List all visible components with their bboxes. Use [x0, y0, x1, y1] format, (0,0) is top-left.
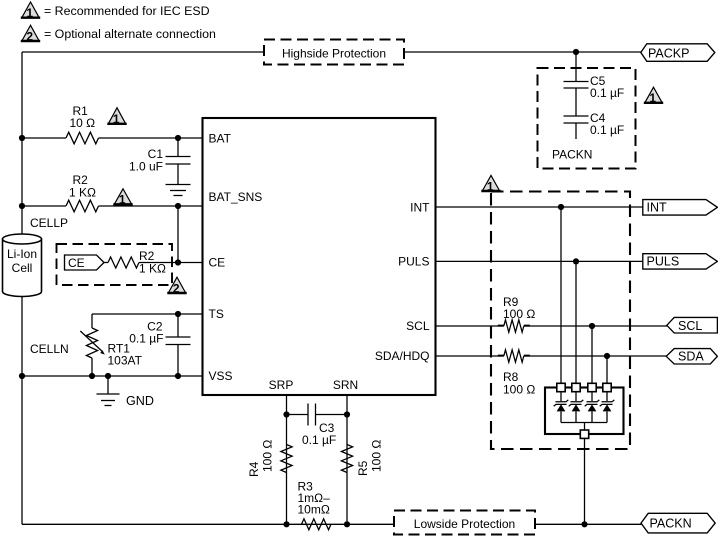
wire PACKP to C5	[575, 52, 577, 82]
TVS common bus	[561, 422, 607, 424]
junction dot SRP-bottom	[283, 521, 289, 527]
svg-text:1: 1	[113, 112, 120, 126]
svg-text:SCL: SCL	[678, 319, 702, 333]
junction dot BAT-C1	[175, 135, 181, 141]
svg-text:CELLN: CELLN	[30, 342, 69, 356]
resistor R9	[504, 320, 524, 332]
connector tag INT	[643, 200, 718, 216]
IC U1 battery gauge body	[203, 118, 436, 395]
wire left rail upper	[21, 52, 23, 235]
svg-text:PACKN: PACKN	[552, 148, 592, 162]
capacitor C1	[166, 138, 191, 185]
svg-text:1.0 uF: 1.0 uF	[129, 160, 163, 174]
svg-text:VSS: VSS	[209, 369, 233, 383]
resistor R3	[302, 519, 332, 530]
svg-text:CE: CE	[68, 256, 85, 270]
svg-text:INT: INT	[647, 201, 668, 215]
connector tag SCL	[667, 317, 718, 333]
ground GND	[97, 376, 120, 406]
wire INT	[436, 206, 643, 208]
svg-text:10mΩ: 10mΩ	[298, 503, 330, 517]
svg-text:GND: GND	[126, 394, 154, 408]
resistor R2	[66, 200, 99, 212]
svg-text:10 Ω: 10 Ω	[70, 116, 96, 130]
junction dot SRP-C3	[283, 411, 289, 417]
wire SDA	[436, 355, 667, 357]
lowside protection box	[394, 511, 535, 535]
wire RT1 to VSS	[91, 358, 93, 376]
wire TVS to PACKN rail	[584, 438, 586, 524]
legend note 2 triangle	[21, 25, 40, 43]
svg-text:1: 1	[119, 193, 126, 207]
wire SRP	[286, 395, 288, 524]
wire TS down to RT1	[91, 314, 93, 328]
wire BAT_SNS to CE vertical	[177, 206, 179, 263]
svg-text:PULS: PULS	[398, 255, 429, 269]
wire top rail right to PACKP	[404, 51, 641, 53]
svg-text:CELLP: CELLP	[30, 216, 68, 230]
wire BAT_SNS	[22, 205, 203, 207]
svg-text:2: 2	[26, 29, 33, 43]
svg-text:100 Ω: 100 Ω	[503, 383, 535, 397]
capacitor C4	[564, 116, 589, 139]
svg-text:Lowside Protection: Lowside Protection	[414, 517, 515, 531]
wire CE	[139, 262, 203, 264]
wire BAT	[22, 137, 203, 139]
svg-text:1: 1	[26, 6, 33, 20]
connector tag PACKN	[641, 513, 715, 533]
optional CE connection dashed box	[57, 244, 173, 285]
svg-text:SDA/HDQ: SDA/HDQ	[375, 349, 430, 363]
connector tag PACKP	[641, 44, 715, 62]
svg-text:TS: TS	[209, 307, 224, 321]
battery BT1 Li-Ion cell	[3, 234, 42, 296]
TVS pin 5	[580, 430, 588, 438]
wire SRN	[346, 395, 348, 524]
note 1 triangle at R2	[113, 189, 132, 207]
resistor R4	[281, 445, 292, 473]
junction dot TS-C2	[175, 311, 181, 317]
resistor R8	[504, 350, 524, 362]
wire bottom rail left	[22, 523, 394, 525]
svg-text:INT: INT	[410, 201, 430, 215]
svg-text:PULS: PULS	[647, 255, 680, 269]
capacitor C2	[166, 314, 191, 376]
svg-text:1: 1	[649, 91, 656, 105]
connector tag CE	[65, 255, 105, 270]
svg-text:Li-Ion: Li-Ion	[7, 247, 37, 261]
svg-text:100 Ω: 100 Ω	[261, 440, 275, 472]
junction dot PACKN rail	[581, 521, 587, 527]
wire SDA to TVS	[606, 356, 608, 384]
svg-text:0.1 µF: 0.1 µF	[129, 332, 163, 346]
svg-text:SDA: SDA	[678, 350, 704, 364]
svg-text:1 KΩ: 1 KΩ	[139, 262, 166, 276]
svg-text:SRN: SRN	[333, 378, 358, 392]
zener diode 4	[600, 392, 615, 423]
zener diode 2	[569, 392, 584, 423]
svg-text:100 Ω: 100 Ω	[503, 307, 535, 321]
C5 C4 dashed box	[538, 68, 636, 169]
wire top rail left	[22, 51, 264, 53]
zener diode 1	[554, 392, 569, 423]
svg-text:Cell: Cell	[12, 261, 33, 275]
wire PULS	[436, 260, 643, 262]
junction dot C2-VSS	[175, 373, 181, 379]
TVS diode array D1	[545, 388, 624, 435]
svg-text:100 Ω: 100 Ω	[370, 440, 384, 472]
wire bottom rail right	[535, 523, 642, 525]
thermistor RT1	[80, 328, 105, 358]
junction dot PULS	[573, 258, 579, 264]
note 1 triangle at R1	[107, 108, 126, 126]
svg-text:103AT: 103AT	[108, 354, 143, 368]
ESD protection dashed box	[491, 192, 630, 450]
wire VSS	[22, 375, 203, 377]
note 1 triangle at C5 box	[644, 87, 663, 105]
svg-text:CE: CE	[209, 256, 226, 270]
svg-text:= Optional alternate connectio: = Optional alternate connection	[44, 27, 216, 41]
wire TS	[92, 313, 203, 315]
connector tag SDA	[666, 349, 717, 364]
resistor R1	[66, 132, 99, 144]
svg-text:= Recommended for IEC ESD: = Recommended for IEC ESD	[44, 4, 210, 18]
TVS pin 2	[572, 383, 580, 391]
junction dot SDA	[604, 353, 610, 359]
junction dot INT	[558, 204, 564, 210]
svg-text:2: 2	[173, 281, 180, 295]
svg-text:R5: R5	[356, 460, 370, 476]
svg-text:SRP: SRP	[269, 378, 294, 392]
junction dot CE	[175, 259, 181, 265]
junction dot CELLP-BAT_SNS	[19, 203, 25, 209]
note 2 triangle at CE	[167, 277, 186, 295]
svg-text:Highside Protection: Highside Protection	[282, 47, 386, 61]
capacitor C5	[564, 82, 589, 117]
junction dot SRN-bottom	[344, 521, 350, 527]
junction dot RT1-VSS	[89, 373, 95, 379]
wire PULS to TVS	[575, 261, 577, 383]
junction dot CELLP-BAT	[19, 135, 25, 141]
wire left rail lower	[21, 295, 23, 525]
highside protection box	[264, 40, 404, 65]
wire INT to TVS	[560, 207, 562, 384]
svg-text:R4: R4	[247, 461, 261, 477]
junction dot SCL	[589, 323, 595, 329]
connector tag PULS	[643, 254, 718, 269]
legend note 1 triangle	[21, 2, 40, 20]
svg-text:SCL: SCL	[406, 319, 430, 333]
svg-text:0.1 µF: 0.1 µF	[590, 86, 624, 100]
junction dot BAT_SNS-CE branch	[175, 203, 181, 209]
note 1 triangle at ESD box	[481, 175, 500, 193]
resistor R2 (alternate)	[104, 257, 139, 268]
TVS pin 4	[603, 383, 611, 391]
junction dot GND-VSS	[105, 373, 111, 379]
capacitor C3	[287, 404, 348, 426]
svg-text:BAT_SNS: BAT_SNS	[209, 190, 263, 204]
svg-text:1 KΩ: 1 KΩ	[69, 186, 96, 200]
svg-text:BAT: BAT	[209, 132, 232, 146]
resistor R5	[341, 445, 352, 473]
junction dot CELLN-VSS	[19, 373, 25, 379]
svg-text:0.1 µF: 0.1 µF	[302, 433, 336, 447]
svg-text:0.1 µF: 0.1 µF	[590, 123, 624, 137]
TVS bus drop	[584, 423, 586, 431]
wire SCL	[436, 325, 668, 327]
wire SCL to TVS	[591, 326, 593, 384]
ground at C1	[166, 185, 191, 196]
TVS pin 1	[557, 383, 565, 391]
junction dot SRN-C3	[344, 411, 350, 417]
TVS pin 3	[588, 383, 596, 391]
svg-text:PACKN: PACKN	[650, 517, 692, 531]
zener diode 3	[585, 392, 600, 423]
svg-text:PACKP: PACKP	[648, 47, 689, 61]
junction dot PACKP-C5	[573, 49, 579, 55]
